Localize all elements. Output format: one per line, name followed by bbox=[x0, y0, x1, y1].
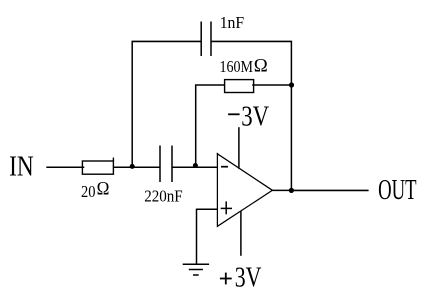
svg-text:OUT: OUT bbox=[378, 175, 416, 206]
supply -3V label bbox=[228, 101, 269, 132]
ground bbox=[183, 264, 209, 275]
value label 1nF bbox=[220, 13, 245, 32]
junction inverting input node bbox=[193, 163, 198, 168]
junction 160M right node bbox=[289, 82, 294, 87]
svg-text:IN: IN bbox=[9, 151, 34, 182]
supply +3V label bbox=[220, 262, 262, 293]
junction input node bbox=[130, 164, 135, 169]
wire op-amp output stub bbox=[272, 189, 291, 191]
value label 160Mohm bbox=[220, 55, 268, 76]
value label 220nF bbox=[144, 187, 183, 206]
wire resistor to 220nF capacitor bbox=[113, 166, 159, 168]
resistor 160Mohm bbox=[225, 80, 254, 93]
svg-text:3V: 3V bbox=[241, 101, 269, 132]
wire 160M left lead bbox=[195, 84, 225, 86]
wire top feedback right bbox=[211, 40, 292, 42]
wire output to OUT bbox=[291, 189, 368, 191]
node IN label bbox=[9, 151, 34, 182]
wire positive supply stub bbox=[240, 211, 242, 256]
op-amp minus pin mark bbox=[221, 166, 228, 168]
svg-text:160M: 160M bbox=[220, 57, 254, 76]
wire 160M left vertical bbox=[195, 85, 197, 167]
svg-text:Ω: Ω bbox=[97, 179, 110, 200]
wire right feedback vertical bbox=[290, 41, 292, 190]
op-amp bbox=[217, 153, 272, 226]
wire top feedback left bbox=[132, 40, 202, 42]
wire non-inverting to ground vertical bbox=[196, 209, 198, 265]
svg-text:20: 20 bbox=[81, 182, 96, 201]
wire negative supply stub bbox=[238, 127, 240, 169]
capacitor 220nF bbox=[160, 146, 172, 183]
op-amp plus pin mark bbox=[221, 201, 232, 214]
wire feedback left vertical bbox=[131, 41, 133, 167]
wire 220nF to op-amp inverting input bbox=[172, 166, 217, 168]
wire 160M right lead bbox=[252, 84, 291, 86]
capacitor 1nF bbox=[201, 22, 211, 57]
value label 20ohm bbox=[81, 179, 109, 201]
svg-text:220nF: 220nF bbox=[144, 187, 183, 206]
wire non-inverting input lead bbox=[197, 208, 218, 210]
resistor 20ohm bbox=[82, 158, 113, 175]
svg-text:1nF: 1nF bbox=[220, 13, 245, 32]
wire IN lead bbox=[46, 166, 84, 168]
node OUT label bbox=[378, 175, 416, 206]
junction output node bbox=[289, 188, 294, 193]
svg-text:Ω: Ω bbox=[254, 55, 268, 76]
svg-text:3V: 3V bbox=[235, 262, 262, 293]
